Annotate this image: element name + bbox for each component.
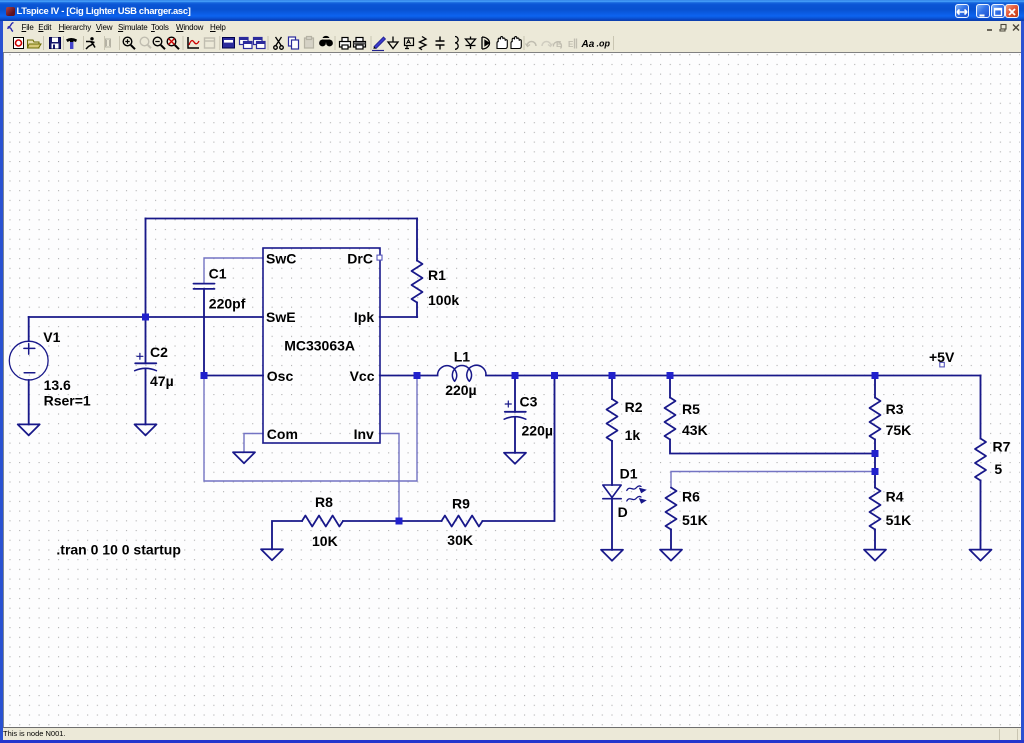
V1 minus sign (24, 372, 35, 374)
svg-text:R2: R2 (625, 399, 643, 415)
D1 LED arrow upper (627, 486, 641, 491)
capacitor C2 top plate (135, 362, 156, 364)
ground below C2 (135, 424, 157, 435)
junction R6-R4 node (872, 468, 879, 475)
open icon (28, 40, 42, 48)
svg-text:R7: R7 (993, 439, 1011, 455)
wire C2 branch down from junction (145, 317, 147, 363)
C2 plus sign (137, 353, 143, 359)
resistor R8 (302, 516, 343, 527)
run icon (86, 37, 95, 49)
print preview icon (340, 38, 351, 50)
svg-text:Osc: Osc (267, 368, 294, 384)
wire R9 left lead to Inv junction (399, 520, 442, 522)
ground symbol icon (388, 37, 398, 49)
zoom pan icon grayed (140, 37, 151, 48)
wire R8 left lead and ground stub (272, 521, 302, 549)
svg-text:220µ: 220µ (522, 423, 553, 439)
ground below R8 (261, 549, 283, 560)
wire R5 bottom lead to node row (670, 440, 875, 454)
move hand icon (497, 37, 507, 49)
wire Inv pin stub down to R8/R9 junction (380, 434, 399, 522)
wire Com pin stub to ground (244, 434, 263, 453)
wire SwC pin stub (204, 258, 263, 283)
svg-text:Rser=1: Rser=1 (44, 393, 91, 409)
component icon (482, 37, 490, 49)
wire Ipk pin stub (380, 316, 417, 318)
wire R7 bottom lead (980, 481, 982, 550)
svg-text:Com: Com (267, 426, 298, 442)
capacitor C3 curved plate (504, 417, 526, 420)
inductor L1 (438, 365, 487, 381)
svg-text:R4: R4 (886, 489, 904, 505)
ground below R7 (970, 550, 992, 561)
junction R8/R9/Inv (396, 518, 403, 525)
capacitor C1 top plate (194, 283, 215, 285)
ground below D1 (601, 550, 623, 561)
wire input rail from V1 to SwE (29, 316, 263, 318)
svg-text:D: D (618, 504, 628, 520)
junction C3 (512, 372, 519, 379)
wire vertical riser x=145.5 up to top feedback wire (145, 219, 147, 318)
wire output rail L1 to R7 corner (486, 375, 981, 377)
svg-text:SwC: SwC (266, 251, 296, 267)
halt icon grayed (106, 39, 111, 47)
wire R6 horizontal tie to R4 node (671, 472, 875, 488)
wire V1 top lead (28, 317, 30, 341)
rotate icon grayed (553, 40, 562, 49)
new schematic icon (14, 38, 24, 49)
svg-text:43K: 43K (682, 422, 708, 438)
wire D1 to ground (611, 499, 613, 550)
control panel hammer icon (66, 38, 77, 49)
svg-text:+5V: +5V (929, 349, 955, 365)
wire R1 bottom lead to Ipk row (416, 303, 418, 318)
capacitor C3 top plate (505, 411, 526, 413)
zoom extents icon (167, 37, 179, 49)
pin DrC unconnected square (377, 255, 382, 260)
resistor R1 (412, 261, 423, 303)
wire R8 right lead (343, 520, 399, 522)
svg-text:R6: R6 (682, 489, 700, 505)
voltage source V1 circle (9, 341, 48, 380)
junction Osc column (201, 372, 208, 379)
diode icon (466, 37, 476, 50)
svg-text:10K: 10K (312, 533, 338, 549)
wire R4 bottom lead (874, 530, 876, 550)
svg-text:30K: 30K (447, 532, 473, 548)
wire node column between junctions (874, 454, 876, 472)
resistor R5 (665, 398, 676, 440)
resistor R7 (975, 439, 986, 481)
wire Osc pin stub (204, 375, 263, 377)
wire R9 riser x=554 (483, 376, 555, 522)
tile icon (254, 38, 266, 49)
svg-text:220pf: 220pf (209, 296, 246, 312)
svg-text:R5: R5 (682, 401, 700, 417)
zoom in icon (123, 37, 135, 49)
svg-text:75K: 75K (886, 422, 912, 438)
svg-text:DrC: DrC (347, 251, 373, 267)
svg-text:SwE: SwE (266, 309, 296, 325)
svg-text:R1: R1 (428, 267, 446, 283)
wire C1 to Osc junction (203, 289, 205, 376)
capacitor C1 bottom plate (194, 288, 215, 290)
svg-text:D1: D1 (620, 466, 638, 482)
wire R3 bottom lead (874, 440, 876, 454)
svg-text:100k: 100k (428, 292, 459, 308)
find icon (319, 36, 333, 46)
junction R9 riser (551, 372, 558, 379)
redo icon grayed (542, 42, 553, 47)
resistor R4 (870, 488, 881, 530)
svg-text:Inv: Inv (354, 426, 374, 442)
svg-text:R3: R3 (886, 401, 904, 417)
svg-text:L1: L1 (454, 349, 471, 365)
capacitor icon (436, 37, 445, 50)
node +5V flag square (940, 362, 945, 367)
svg-text:47µ: 47µ (150, 373, 174, 389)
wire R7 top lead down from rail corner (980, 376, 982, 439)
wire R2 to D1 lead (611, 441, 613, 485)
svg-text:51K: 51K (682, 512, 708, 528)
wire R3 top lead (874, 376, 876, 398)
cascade icon (240, 38, 253, 49)
ground below R6 (660, 550, 682, 561)
wire R2 top lead (611, 376, 613, 400)
print icon (354, 38, 366, 50)
wire C2 bottom to ground (145, 370, 147, 425)
wire C3 bottom to ground (514, 418, 516, 453)
junction R5 (667, 372, 674, 379)
waveform grayed icon (205, 38, 215, 48)
svg-text:Vcc: Vcc (350, 368, 375, 384)
ground below C3 (504, 453, 526, 464)
svg-text:5: 5 (994, 461, 1002, 477)
junction Vcc column (414, 372, 421, 379)
wire bottom feedback loop Osc column to Vcc column (204, 376, 417, 482)
wire C3 top lead (514, 376, 516, 412)
ground below Com pin (233, 452, 255, 463)
svg-text:13.6: 13.6 (44, 377, 71, 393)
wire R1 top lead (416, 219, 418, 261)
svg-text:V1: V1 (43, 329, 60, 345)
V1 plus sign (24, 344, 35, 355)
junction V1/C2 rail (142, 314, 149, 321)
cut icon (274, 37, 284, 49)
wire R6 bottom lead (670, 530, 672, 550)
resistor R6 (666, 488, 677, 530)
svg-text:220µ: 220µ (445, 382, 476, 398)
wire V1 bottom lead to ground (28, 380, 30, 424)
junction R3 (872, 372, 879, 379)
svg-text:R8: R8 (315, 494, 333, 510)
drag hand icon (511, 37, 521, 49)
op-amp U1 MC33063A box (263, 248, 380, 443)
resistor R3 (870, 398, 881, 440)
inductor icon (455, 37, 458, 50)
junction R2 (609, 372, 616, 379)
svg-text:C1: C1 (209, 265, 227, 281)
capacitor C2 curved plate (135, 368, 157, 370)
svg-text:MC33063A: MC33063A (284, 338, 355, 354)
svg-text:Ipk: Ipk (354, 309, 374, 325)
svg-text:C2: C2 (150, 344, 168, 360)
tile vertical icon (223, 38, 235, 49)
ground below V1 (18, 424, 40, 435)
undo icon grayed (526, 42, 537, 47)
svg-text:C3: C3 (520, 394, 538, 410)
copy icon (289, 37, 299, 49)
resistor R9 (442, 516, 483, 527)
mirror icon grayed (568, 39, 577, 50)
svg-text:R9: R9 (452, 496, 470, 512)
C3 plus sign (505, 401, 511, 407)
D1 LED arrow lower (627, 496, 641, 501)
wire Vcc pin stub to L1 (380, 375, 438, 377)
svg-text:.tran 0 10 0 startup: .tran 0 10 0 startup (56, 542, 180, 558)
waveform icon (188, 37, 199, 48)
svg-text:51K: 51K (886, 512, 912, 528)
wire R5 top lead (669, 376, 671, 398)
junction R5-R3 node (872, 450, 879, 457)
wire R4 top lead (874, 472, 876, 488)
net label icon (405, 38, 414, 49)
resistor icon (420, 37, 427, 50)
wire top horizontal to R1 branch (146, 218, 418, 220)
zoom out icon (153, 37, 165, 49)
ground below R4 (864, 550, 886, 561)
save icon (50, 38, 61, 49)
draw wire pencil icon (372, 37, 386, 51)
paste icon grayed (305, 37, 314, 49)
resistor R2 (607, 399, 618, 441)
svg-text:1k: 1k (625, 427, 641, 443)
diode D1 (603, 485, 621, 499)
